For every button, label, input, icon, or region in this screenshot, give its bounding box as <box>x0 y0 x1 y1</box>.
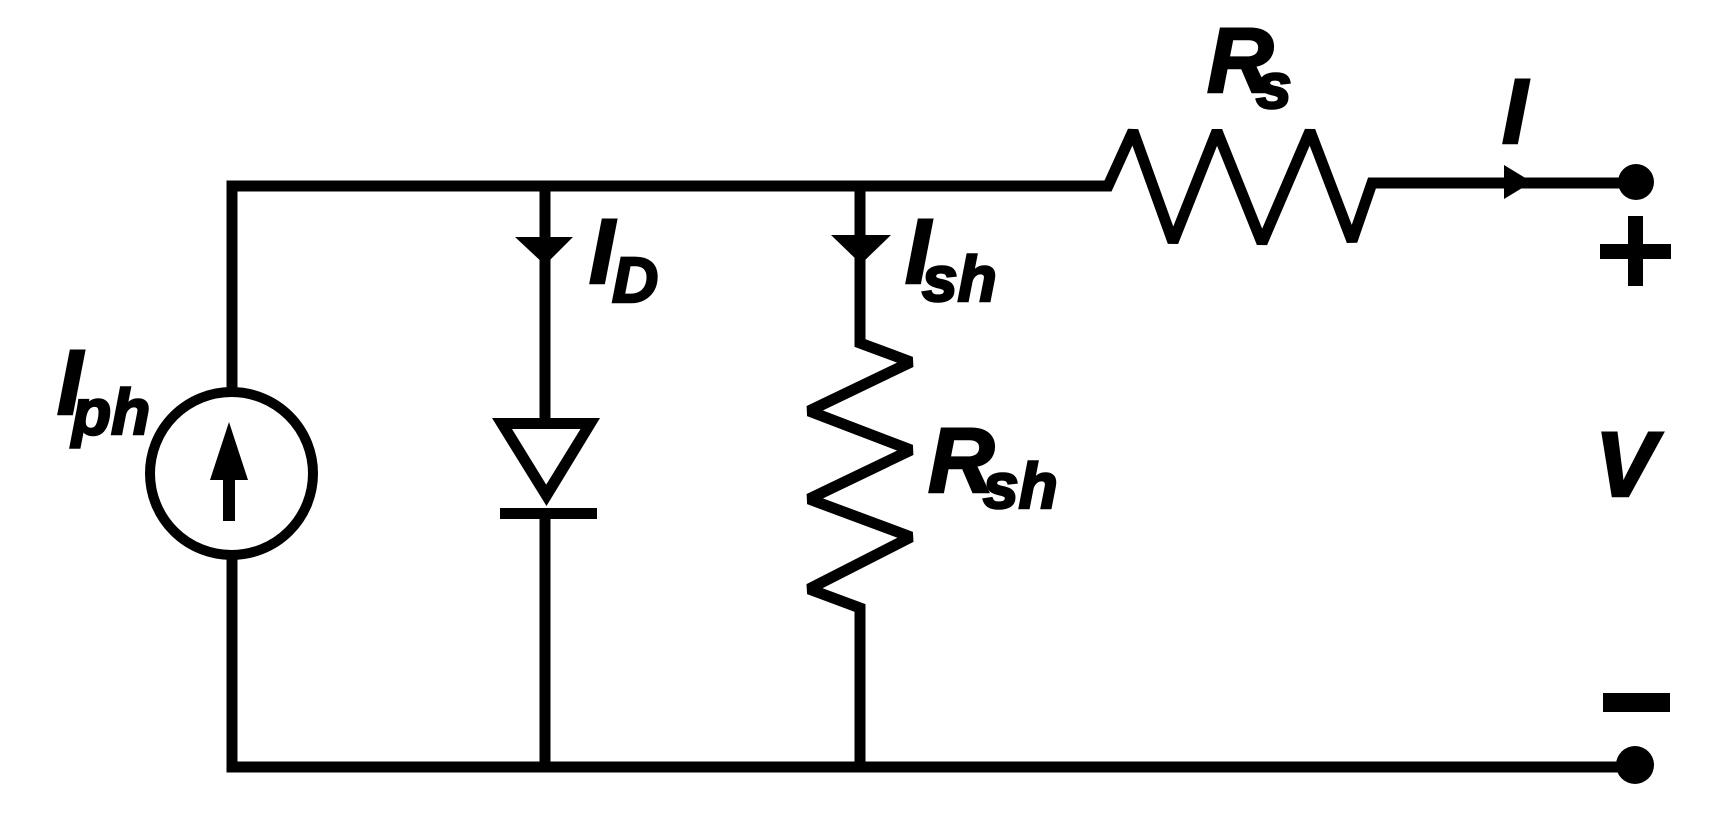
svg-text:D: D <box>612 244 658 316</box>
svg-text:ph: ph <box>70 376 150 448</box>
svg-text:s: s <box>1256 50 1292 122</box>
svg-text:sh: sh <box>983 450 1058 522</box>
svg-text:V: V <box>1595 414 1663 516</box>
svg-text:sh: sh <box>922 243 997 315</box>
svg-text:I: I <box>1502 61 1530 163</box>
